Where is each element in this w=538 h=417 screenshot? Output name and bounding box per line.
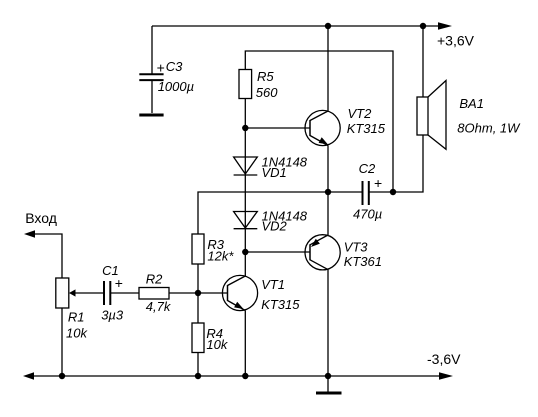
svg-text:10k: 10k [66, 325, 88, 340]
svg-text:Вход: Вход [25, 210, 57, 226]
wire VT3 collector to bottom rail [327, 270, 329, 376]
wire VT1 emitter to rail [244, 311, 246, 377]
svg-text:+3,6V: +3,6V [437, 33, 475, 49]
resistor R4 [192, 323, 204, 353]
svg-text:VT3: VT3 [344, 239, 369, 254]
svg-text:KT315: KT315 [261, 297, 300, 312]
diode VD1 [234, 157, 258, 175]
node VT2 base / R5 / VD1 [242, 125, 248, 131]
svg-text:4,7k: 4,7k [146, 299, 172, 314]
ground symbol [316, 392, 342, 395]
wire R1 wiper to C1 [74, 292, 103, 294]
svg-text:12k*: 12k* [207, 248, 234, 263]
wire R2 to base node [169, 292, 198, 294]
op VT1 emitter arrow [234, 302, 243, 309]
svg-text:-3,6V: -3,6V [427, 351, 461, 367]
svg-text:3µ3: 3µ3 [101, 308, 124, 323]
op arrow +3.6V rail arrowhead [438, 22, 452, 30]
node bootstrap C2 [390, 189, 396, 195]
svg-text:VT2: VT2 [348, 106, 373, 121]
wire bootstrap horizontal R5 top to C2 node [245, 51, 393, 192]
wire base node to R4 top [197, 293, 199, 323]
wire R1 bottom to rail [61, 308, 63, 376]
op R1 wiper arrow [69, 289, 76, 296]
wire R4 bottom to rail [197, 353, 199, 377]
node rail R1 [59, 373, 65, 379]
svg-text:KT361: KT361 [344, 254, 382, 269]
ground under C3 [139, 114, 163, 117]
wire VT3 base [245, 251, 310, 253]
svg-text:+: + [115, 275, 123, 291]
wire base node to VT1 base [198, 292, 228, 294]
node rail VT1 emitter [242, 373, 248, 379]
transistor VT2 [305, 110, 340, 145]
resistor R3 [192, 234, 204, 264]
transistor VT1 [222, 275, 257, 310]
op -3.6V rail right arrowhead [439, 372, 453, 380]
svg-text:470µ: 470µ [353, 206, 382, 221]
svg-text:+: + [374, 175, 382, 191]
capacitor C3 [139, 74, 163, 80]
wire feedback line R3 top to C2 left plate [198, 192, 362, 234]
node top rail VT2 collector [325, 23, 331, 29]
svg-text:C3: C3 [166, 59, 183, 74]
node rail R4 [195, 373, 201, 379]
svg-text:BA1: BA1 [459, 96, 484, 111]
wire diode chain VD1-VD2 column [244, 128, 246, 252]
svg-text:R2: R2 [146, 272, 163, 287]
svg-text:560: 560 [256, 85, 278, 100]
op VT2 emitter arrow [319, 137, 328, 144]
svg-text:C2: C2 [359, 161, 376, 176]
svg-text:R1: R1 [68, 310, 85, 325]
resistor R5 [239, 70, 252, 99]
node VT1 base [195, 290, 201, 296]
wire R3 bottom to base node [197, 264, 199, 293]
capacitor C1 [104, 281, 110, 305]
wire VT1 collector to VD2 node [244, 252, 246, 276]
svg-text:+: + [157, 60, 165, 76]
wire ground stub below rail [327, 376, 329, 392]
svg-text:KT315: KT315 [347, 121, 386, 136]
op -3.6V rail left arrowhead [23, 372, 34, 380]
svg-text:8Ohm, 1W: 8Ohm, 1W [457, 121, 521, 136]
svg-text:10k: 10k [206, 337, 228, 352]
op VT3 emitter arrow [311, 239, 320, 247]
resistor R2 [139, 288, 169, 300]
wire R5 bottom to VT2 base node [244, 99, 246, 129]
op input arrowhead [24, 230, 35, 238]
wire C2 right plate to speaker bottom [370, 135, 424, 192]
svg-text:R5: R5 [257, 69, 274, 84]
potentiometer R1 [56, 278, 69, 308]
wire VT2 base [245, 127, 310, 129]
wire C3 riser from top rail [151, 26, 153, 74]
svg-text:VD1: VD1 [262, 165, 287, 180]
transistor VT3 [305, 235, 340, 270]
node VD2 / VT3 base / VT1 collector [242, 249, 248, 255]
wire VT2 collector to top rail [327, 26, 329, 111]
diode VD2 [234, 212, 258, 229]
wire VT2 emitter to output node [327, 146, 329, 193]
wire VT3 emitter to output node [327, 192, 329, 235]
wire input horizontal [35, 234, 62, 278]
wire C1 to R2 [111, 292, 140, 294]
speaker BA1 [417, 81, 446, 150]
wire top +3.6V rail [152, 25, 446, 27]
wire bottom -3.6V rail [34, 375, 446, 377]
node output [325, 189, 331, 195]
svg-text:1000µ: 1000µ [158, 79, 194, 94]
svg-text:VD2: VD2 [262, 219, 288, 234]
node rail VT3 collector [325, 373, 331, 379]
wire C3 lower stem [151, 81, 153, 114]
node top rail speaker [420, 23, 426, 29]
wire speaker top to +3.6V rail [422, 26, 424, 97]
capacitor C2 [363, 181, 369, 205]
svg-text:VT1: VT1 [261, 277, 285, 292]
